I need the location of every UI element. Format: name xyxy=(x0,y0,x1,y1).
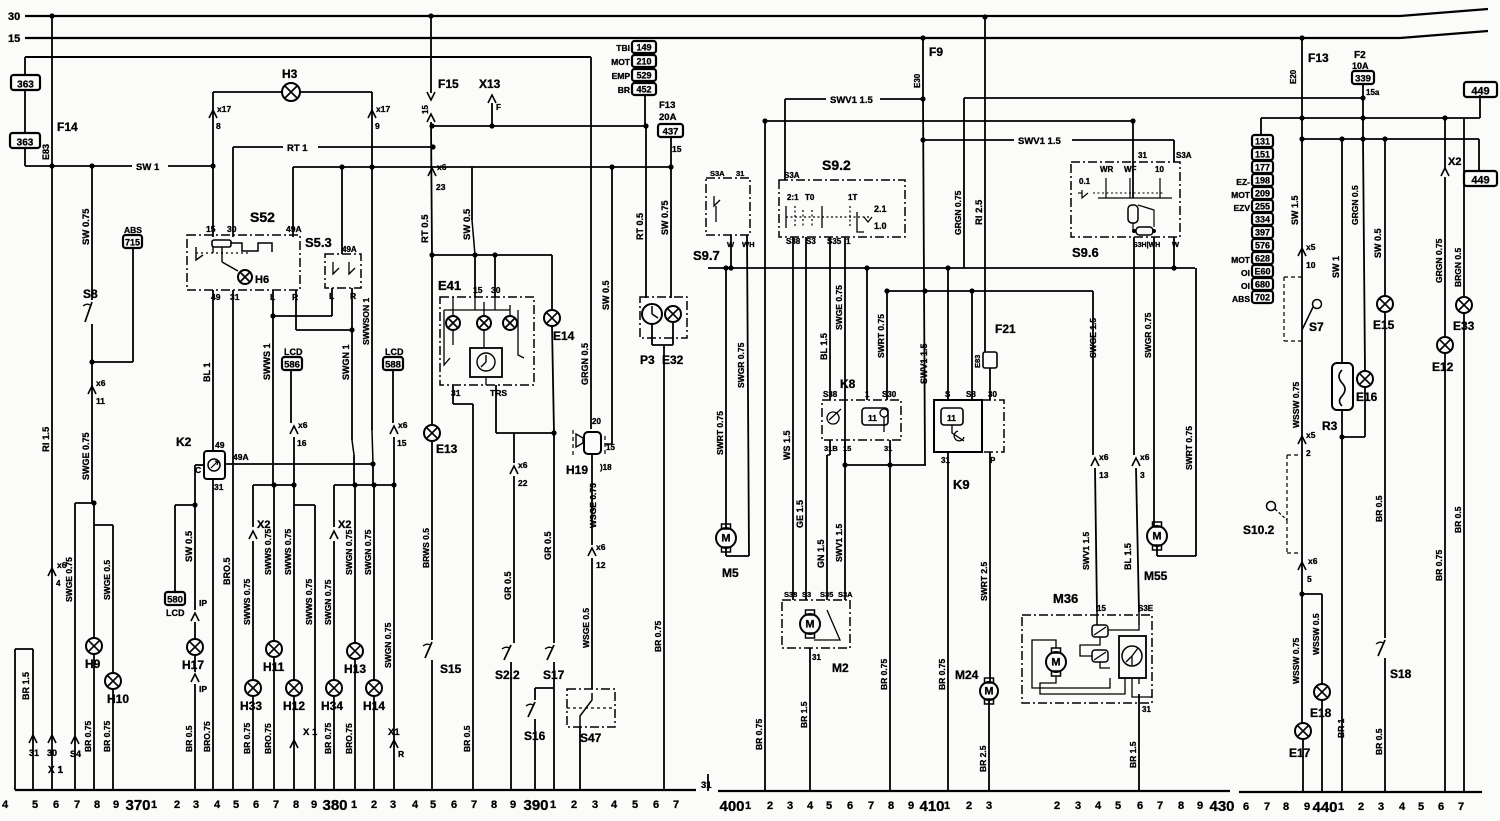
svg-text:576: 576 xyxy=(1255,241,1270,251)
K9 31 ground wire BR 0.75 xyxy=(947,452,949,790)
svg-text:X 1: X 1 xyxy=(48,765,63,776)
svg-text:GRGN 0.5: GRGN 0.5 xyxy=(1350,185,1360,225)
svg-text:SWWS 0.75: SWWS 0.75 xyxy=(283,528,293,575)
svg-text:H17: H17 xyxy=(182,658,204,672)
svg-text:EZV: EZV xyxy=(1233,203,1250,213)
svg-text:S47: S47 xyxy=(580,731,602,745)
E41 terminal 30 wire xyxy=(494,255,496,297)
svg-text:31: 31 xyxy=(214,482,224,492)
svg-text:9: 9 xyxy=(375,121,380,131)
E41 ground wire BR 0.5 to rail xyxy=(472,404,474,790)
K2 49A output line to SWWSON junction xyxy=(225,463,373,465)
svg-text:E15: E15 xyxy=(1373,318,1395,332)
svg-text:31: 31 xyxy=(1142,705,1151,714)
wire into S52 terminal 15 xyxy=(212,166,214,237)
svg-text:S38: S38 xyxy=(823,390,838,399)
wire to H11 SWWS 0.75 xyxy=(273,485,275,641)
bus A wiper feed y268 xyxy=(708,267,1195,269)
M36 contact boxes xyxy=(1092,625,1108,637)
svg-text:7: 7 xyxy=(471,799,477,811)
svg-text:H10: H10 xyxy=(107,692,129,706)
svg-text:RT 0.5: RT 0.5 xyxy=(635,213,645,240)
wire S52-49 down to K2 (BL 1) xyxy=(212,290,214,451)
branch wire SWGE 0.75 to S4 arrow xyxy=(75,502,94,504)
svg-text:M36: M36 xyxy=(1053,591,1078,606)
svg-text:BRO.75: BRO.75 xyxy=(202,721,212,752)
right feed line y139 xyxy=(1302,138,1479,140)
svg-text:15a: 15a xyxy=(1366,88,1380,97)
K9 internals xyxy=(941,408,963,425)
pump R3 xyxy=(1332,363,1353,410)
svg-text:BR 1: BR 1 xyxy=(1336,718,1346,738)
junction bus A / M5 feed xyxy=(723,265,728,270)
svg-text:GE 1.5: GE 1.5 xyxy=(795,500,805,528)
svg-text:588: 588 xyxy=(385,360,401,371)
svg-text:210: 210 xyxy=(636,57,651,67)
M36 internal wires xyxy=(1096,612,1098,625)
svg-text:1: 1 xyxy=(151,799,157,811)
svg-text:2:1: 2:1 xyxy=(787,193,799,202)
S52 L output to S5.3 L link xyxy=(272,290,274,316)
svg-text:MOT: MOT xyxy=(1231,255,1251,265)
svg-text:5: 5 xyxy=(233,799,239,811)
lamp H33 xyxy=(245,680,261,696)
svg-text:S38: S38 xyxy=(784,590,797,599)
wire SW 0.5 elbow from y167 line xyxy=(471,167,473,220)
svg-text:SWGE 0.5: SWGE 0.5 xyxy=(102,560,112,600)
svg-text:IP: IP xyxy=(199,598,207,608)
svg-text:S52: S52 xyxy=(250,209,275,225)
switch S18 xyxy=(1378,640,1385,656)
wire SW 0.5 down to H17 xyxy=(194,505,196,610)
lamp E33 xyxy=(1456,297,1472,313)
fuse F14 wire with E83 marking xyxy=(51,16,53,790)
wire F2 down xyxy=(1362,84,1364,139)
svg-text:M5: M5 xyxy=(722,566,739,580)
svg-text:449: 449 xyxy=(1471,175,1489,187)
svg-text:4: 4 xyxy=(412,799,419,811)
H34 ground BR 0.75 xyxy=(333,696,335,790)
svg-text:X1: X1 xyxy=(388,727,400,738)
svg-text:BR 0.5: BR 0.5 xyxy=(1374,728,1384,755)
S9.6 S3A right stub xyxy=(1173,237,1175,268)
junction F9 wire / bus B xyxy=(922,288,927,293)
wire from y167 feed line into S52 49A xyxy=(292,167,294,237)
K9 S8 stub to bus B xyxy=(971,291,973,400)
svg-text:BR 0.75: BR 0.75 xyxy=(1434,550,1444,581)
svg-text:S7: S7 xyxy=(1309,320,1324,334)
svg-text:x17: x17 xyxy=(376,104,390,114)
svg-text:SWWS 0.75: SWWS 0.75 xyxy=(242,578,252,625)
H33 ground BR 0.75 xyxy=(252,696,254,790)
svg-text:13: 13 xyxy=(1099,470,1109,480)
bus B wiper feed y291 xyxy=(887,290,1093,292)
svg-text:WSSW 0.5: WSSW 0.5 xyxy=(1311,613,1321,655)
svg-text:BR 0.75: BR 0.75 xyxy=(879,659,889,690)
svg-text:2: 2 xyxy=(1054,800,1060,812)
svg-text:10: 10 xyxy=(1155,165,1164,174)
lamp H13 xyxy=(347,643,363,659)
svg-text:440: 440 xyxy=(1312,799,1337,816)
svg-text:BL 1.5: BL 1.5 xyxy=(819,333,829,360)
lamp H14 xyxy=(366,680,382,696)
S9.2 1 wire SWGE 0.75 to K8 bar xyxy=(844,237,846,465)
H17 ground wire BR 0.5 xyxy=(194,684,196,790)
svg-text:H33: H33 xyxy=(240,699,262,713)
K8 15 stub to bar xyxy=(844,440,846,465)
svg-text:31: 31 xyxy=(941,456,950,465)
svg-text:RT 1: RT 1 xyxy=(287,143,308,154)
svg-text:2: 2 xyxy=(1306,448,1311,458)
wire WSGE 0.5 into S47 xyxy=(591,558,593,689)
K8 S30 stub SWRT 0.75 to bus B xyxy=(886,291,888,400)
svg-text:WSSW 0.75: WSSW 0.75 xyxy=(1291,381,1301,428)
wire LCD588 to X6 pin15 xyxy=(392,370,394,423)
svg-text:SWGR 0.75: SWGR 0.75 xyxy=(736,342,746,388)
svg-text:P3: P3 xyxy=(640,353,655,367)
svg-text:5: 5 xyxy=(430,799,436,811)
svg-text:11: 11 xyxy=(96,396,105,406)
svg-text:31: 31 xyxy=(230,292,240,302)
svg-text:BR 1.5: BR 1.5 xyxy=(1128,741,1138,768)
left lamp group feed bar xyxy=(253,484,294,486)
svg-text:x6: x6 xyxy=(298,420,308,430)
wire GRGN 0.5 from bus3 xyxy=(590,57,592,429)
svg-text:F9: F9 xyxy=(929,45,943,59)
svg-text:7: 7 xyxy=(1458,801,1464,813)
svg-text:EMP: EMP xyxy=(612,71,631,81)
svg-text:K9: K9 xyxy=(953,477,970,492)
svg-text:M: M xyxy=(805,619,814,631)
svg-text:3: 3 xyxy=(1140,470,1145,480)
svg-text:9: 9 xyxy=(311,799,317,811)
K9 P wire SWRT 2.5 to M24 xyxy=(989,452,991,682)
ground rail segment 3 xyxy=(1239,791,1482,793)
svg-text:S2.2: S2.2 xyxy=(495,668,520,682)
svg-text:EZ-: EZ- xyxy=(1236,177,1250,187)
svg-text:452: 452 xyxy=(636,85,651,95)
junction y167 / SWWSON wire xyxy=(369,164,374,169)
svg-text:9: 9 xyxy=(113,799,119,811)
E13 ground wire BRWS 0.5 with switch S15 xyxy=(431,441,433,640)
wire SWV1 1.5 line 1 xyxy=(785,98,826,100)
E41 31 ground elbow xyxy=(452,385,454,404)
svg-text:151: 151 xyxy=(1255,150,1270,160)
wire SWWS 1 down to left lamp group xyxy=(272,316,274,485)
S52 31 ground wire BRO.5 xyxy=(232,290,234,790)
svg-text:380: 380 xyxy=(322,797,347,814)
lamp H10 xyxy=(105,673,121,689)
fuse F15 wire from bus30 xyxy=(430,16,432,93)
svg-text:370: 370 xyxy=(125,797,150,814)
lamp E13 xyxy=(424,425,440,441)
K8 31 stub down xyxy=(889,440,891,465)
svg-text:S3A: S3A xyxy=(838,590,853,599)
449 connector top right xyxy=(1479,95,1481,118)
H12 ground with X1 arrow xyxy=(293,696,295,790)
svg-text:5: 5 xyxy=(1418,801,1424,813)
svg-text:20A: 20A xyxy=(659,112,677,123)
ABS connector branch wire xyxy=(92,361,133,363)
svg-text:680: 680 xyxy=(1255,280,1270,290)
lamp H34 xyxy=(326,680,342,696)
svg-text:390: 390 xyxy=(523,797,548,814)
wire RT 1 line xyxy=(233,146,283,148)
svg-text:BR 0.75: BR 0.75 xyxy=(102,721,112,752)
svg-text:S3E: S3E xyxy=(1138,604,1154,613)
svg-text:S3: S3 xyxy=(806,237,816,246)
svg-text:SWRT 0.75: SWRT 0.75 xyxy=(715,411,725,455)
svg-text:10: 10 xyxy=(1306,260,1316,270)
svg-text:6: 6 xyxy=(1438,801,1444,813)
svg-text:31: 31 xyxy=(29,748,39,758)
connector X6 pin 4 on F14 wire xyxy=(48,568,56,576)
svg-text:TRS: TRS xyxy=(490,388,507,398)
svg-text:198: 198 xyxy=(1255,176,1270,186)
svg-text:3: 3 xyxy=(1378,801,1384,813)
svg-text:3: 3 xyxy=(1075,800,1081,812)
junction 30-bus / F14 wire xyxy=(49,13,54,18)
svg-text:M: M xyxy=(1152,531,1161,543)
S47 output wire to rail xyxy=(579,727,581,790)
svg-text:RT 0.5: RT 0.5 xyxy=(420,214,431,243)
449 connector lower right xyxy=(1478,139,1480,171)
E33 ground BR 0.5 xyxy=(1463,313,1465,792)
svg-text:WSSW 0.75: WSSW 0.75 xyxy=(1291,637,1301,684)
E15 ground wire BR 0.5 with S18 xyxy=(1384,312,1386,638)
svg-text:2.1: 2.1 xyxy=(874,204,887,214)
svg-text:SWWS 0.75: SWWS 0.75 xyxy=(304,578,314,625)
svg-text:49: 49 xyxy=(215,440,225,450)
svg-text:BL 1: BL 1 xyxy=(202,363,212,382)
junction SWGE splits xyxy=(91,500,96,505)
svg-text:BR 0.5: BR 0.5 xyxy=(1453,506,1463,533)
svg-text:449: 449 xyxy=(1471,86,1489,98)
svg-text:E13: E13 xyxy=(436,442,458,456)
svg-text:BR 1.5: BR 1.5 xyxy=(21,672,31,700)
svg-text:702: 702 xyxy=(1255,293,1270,303)
svg-text:)18: )18 xyxy=(600,463,612,472)
svg-text:BR 0.5: BR 0.5 xyxy=(462,725,472,752)
through wire SWGN 0.75 with X1/R arrow xyxy=(393,485,395,790)
svg-text:6: 6 xyxy=(653,799,659,811)
E41 internal clock xyxy=(470,348,502,377)
wire to H13 SWGN 0.75 xyxy=(354,485,356,643)
svg-text:BR 0.75: BR 0.75 xyxy=(83,721,93,752)
S9.7 W stub to bus A xyxy=(730,235,732,268)
svg-text:23: 23 xyxy=(436,182,446,192)
svg-text:H6: H6 xyxy=(255,274,269,286)
svg-text:6: 6 xyxy=(1243,801,1249,813)
svg-text:x6: x6 xyxy=(1099,452,1109,462)
svg-text:E32: E32 xyxy=(662,353,684,367)
svg-text:BR 2.5: BR 2.5 xyxy=(978,745,988,772)
junction 49A line / SWWSON wire xyxy=(370,461,375,466)
K2 31 ground wire BRO.75 xyxy=(212,479,214,790)
svg-text:F13: F13 xyxy=(1308,51,1329,65)
switch S17 xyxy=(547,645,554,660)
E41 internal lamps xyxy=(446,316,460,330)
svg-text:SWWS 1: SWWS 1 xyxy=(262,343,272,380)
svg-text:2: 2 xyxy=(767,800,773,812)
svg-text:586: 586 xyxy=(284,360,300,371)
svg-text:E60: E60 xyxy=(1254,267,1270,277)
svg-text:49A: 49A xyxy=(233,452,249,462)
H11 ground BRO.75 xyxy=(273,657,275,790)
svg-text:628: 628 xyxy=(1255,254,1270,264)
switch S16 xyxy=(528,702,535,717)
wire WSSW 0.5 to E18 xyxy=(1321,594,1323,684)
E41 terminal 15 wire xyxy=(474,255,476,297)
svg-text:BR: BR xyxy=(618,85,630,95)
feed line y126 xyxy=(432,125,646,127)
junction C-wire / LCD580 branch xyxy=(192,502,197,507)
stack output wire xyxy=(644,95,646,126)
svg-text:SW 1: SW 1 xyxy=(136,162,160,173)
S9.6 internals xyxy=(1082,190,1088,198)
svg-text:SW 0.75: SW 0.75 xyxy=(81,208,92,245)
wire H3 right to X17 pin 9 xyxy=(300,91,372,93)
svg-text:M24: M24 xyxy=(955,668,979,682)
svg-text:BR 0.75: BR 0.75 xyxy=(754,719,764,750)
svg-text:BL 1.5: BL 1.5 xyxy=(1123,543,1133,570)
svg-text:R: R xyxy=(350,291,356,301)
H10 ground wire BR 0.75 xyxy=(112,689,114,790)
svg-text:31: 31 xyxy=(1138,151,1147,160)
S9.2 S35 wire BL 1.5 to K8 xyxy=(829,237,831,400)
svg-text:BRGN 0.5: BRGN 0.5 xyxy=(1453,248,1463,287)
wire SWV1 1.5 line 2 to S9.6 xyxy=(923,139,1014,141)
svg-text:S30: S30 xyxy=(882,390,897,399)
S9.2 S3 wire GE 1.5 down to M2 xyxy=(805,237,807,600)
svg-text:SWRT 2.5: SWRT 2.5 xyxy=(979,562,989,601)
P3/E32 ground join xyxy=(651,324,653,345)
connector X6 pin 23 on RT wire xyxy=(428,168,436,176)
svg-text:IP: IP xyxy=(199,684,207,694)
svg-text:SW 0.75: SW 0.75 xyxy=(660,200,670,235)
svg-text:5: 5 xyxy=(32,799,38,811)
svg-text:LCD: LCD xyxy=(385,347,404,357)
svg-text:2: 2 xyxy=(966,800,972,812)
svg-text:SWGN 0.75: SWGN 0.75 xyxy=(344,529,354,575)
svg-text:WS 1.5: WS 1.5 xyxy=(782,430,792,460)
H19 15-terminal entry xyxy=(605,443,612,445)
S9.6 stub SWGE 1.5 to M36 S3E xyxy=(1133,237,1135,455)
svg-text:LCD: LCD xyxy=(284,347,303,357)
wire SW 1 line xyxy=(25,165,132,167)
connector 363 (top) xyxy=(11,75,40,91)
lamp E16 xyxy=(1357,371,1373,387)
svg-text:7: 7 xyxy=(868,800,874,812)
S5.3 feed wire xyxy=(341,167,343,254)
svg-text:580: 580 xyxy=(167,595,183,606)
svg-text:WF: WF xyxy=(1124,165,1137,174)
svg-text:R3: R3 xyxy=(1322,419,1338,433)
bus 3 (supply line to GRGN wire) xyxy=(25,56,591,58)
wire SWRT 0.75 to M5 xyxy=(725,268,727,528)
svg-text:3: 3 xyxy=(592,799,598,811)
switch S47 dashed box xyxy=(567,689,615,727)
svg-text:WR: WR xyxy=(1100,165,1114,174)
svg-text:F: F xyxy=(496,103,501,112)
connector stack EZ/MOT/EZV right xyxy=(1252,135,1273,147)
svg-text:6: 6 xyxy=(451,799,457,811)
M24 ground BR 2.5 xyxy=(988,700,990,790)
svg-text:X13: X13 xyxy=(479,77,501,91)
junction F9 / SWV1 line 1 xyxy=(920,96,925,101)
lamp H9 wire xyxy=(93,503,95,638)
svg-text:F21: F21 xyxy=(995,322,1016,336)
wire between 363 connectors xyxy=(24,90,26,133)
svg-text:397: 397 xyxy=(1255,228,1270,238)
TRS link bar y433 xyxy=(496,432,554,434)
svg-text:8: 8 xyxy=(888,800,894,812)
svg-text:x6: x6 xyxy=(518,460,528,470)
svg-text:15: 15 xyxy=(672,144,682,154)
wire SWV1 1.5 from bar down to M2 S3A xyxy=(844,465,846,600)
switch S10.2 dashed xyxy=(1287,454,1302,456)
svg-text:4: 4 xyxy=(1399,801,1406,813)
svg-text:4: 4 xyxy=(807,800,814,812)
svg-text:SW 1: SW 1 xyxy=(1331,256,1341,278)
svg-text:x17: x17 xyxy=(217,104,231,114)
svg-text:OI: OI xyxy=(1241,281,1250,291)
junction 30-bus / F15 wire xyxy=(428,13,433,18)
right lamp group feed bar xyxy=(334,484,394,486)
svg-text:1: 1 xyxy=(846,237,851,246)
K8 31B elbow to GN 1.5 wire xyxy=(829,440,831,455)
svg-text:X2: X2 xyxy=(338,519,351,531)
svg-text:R: R xyxy=(292,292,298,302)
wire RT 0.5 down to P3 xyxy=(645,126,647,298)
svg-text:E83: E83 xyxy=(973,355,982,368)
K9 S stub to bus A xyxy=(947,268,949,400)
motor M24 xyxy=(980,678,998,704)
svg-text:M: M xyxy=(984,686,993,698)
svg-text:30: 30 xyxy=(47,748,57,758)
svg-text:x6: x6 xyxy=(96,378,106,388)
svg-text:X 1: X 1 xyxy=(303,727,318,738)
svg-text:SWRT 0.75: SWRT 0.75 xyxy=(1184,426,1194,470)
svg-text:2: 2 xyxy=(371,799,377,811)
svg-text:F14: F14 xyxy=(57,120,78,134)
svg-text:16: 16 xyxy=(297,438,307,448)
connector X17 pin 9 xyxy=(368,110,376,118)
feed line y121 from left xyxy=(765,120,1133,122)
branch to H10 xyxy=(94,524,113,526)
svg-text:P: P xyxy=(990,456,996,465)
svg-text:BRWS 0.5: BRWS 0.5 xyxy=(421,528,431,568)
svg-text:8: 8 xyxy=(94,799,100,811)
RT1 corner down to S52 terminal 30 xyxy=(232,147,234,237)
svg-text:S9.6: S9.6 xyxy=(1072,245,1099,260)
connector X17 pin 8 xyxy=(209,110,217,118)
svg-text:S3A: S3A xyxy=(710,169,725,178)
lamp H11 xyxy=(266,641,282,657)
svg-text:8: 8 xyxy=(293,799,299,811)
wire SWWSON 1 down xyxy=(371,167,373,430)
S9.6 31 feed from y121 line xyxy=(1132,121,1134,198)
svg-text:OI: OI xyxy=(1241,268,1250,278)
svg-text:S9.2: S9.2 xyxy=(822,157,851,173)
K8 1-terminal stub to bus A xyxy=(866,268,868,400)
svg-text:BRO.75: BRO.75 xyxy=(344,723,354,754)
svg-text:30: 30 xyxy=(227,224,237,234)
svg-text:9: 9 xyxy=(510,799,516,811)
svg-text:0.1: 0.1 xyxy=(1079,177,1091,186)
connector arrow 31 and BR 1.5 stub at far left xyxy=(14,649,16,790)
wire to H33 with X2 connector xyxy=(252,485,254,527)
